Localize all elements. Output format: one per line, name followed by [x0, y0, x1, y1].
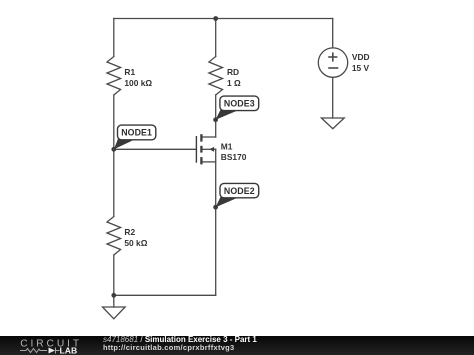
svg-text:100 kΩ: 100 kΩ	[124, 78, 152, 88]
svg-text:LAB: LAB	[60, 346, 78, 355]
svg-text:NODE3: NODE3	[224, 99, 255, 109]
svg-text:50 kΩ: 50 kΩ	[124, 238, 147, 248]
svg-text:RD: RD	[227, 67, 239, 77]
svg-text:VDD: VDD	[352, 52, 370, 62]
svg-text:NODE2: NODE2	[224, 186, 255, 196]
svg-text:15 V: 15 V	[352, 63, 370, 73]
svg-text:R1: R1	[124, 67, 135, 77]
svg-text:1 Ω: 1 Ω	[227, 78, 241, 88]
svg-text:R2: R2	[124, 227, 135, 237]
svg-text:BS170: BS170	[221, 152, 247, 162]
svg-text:NODE1: NODE1	[121, 128, 152, 138]
svg-text:M1: M1	[221, 142, 233, 152]
